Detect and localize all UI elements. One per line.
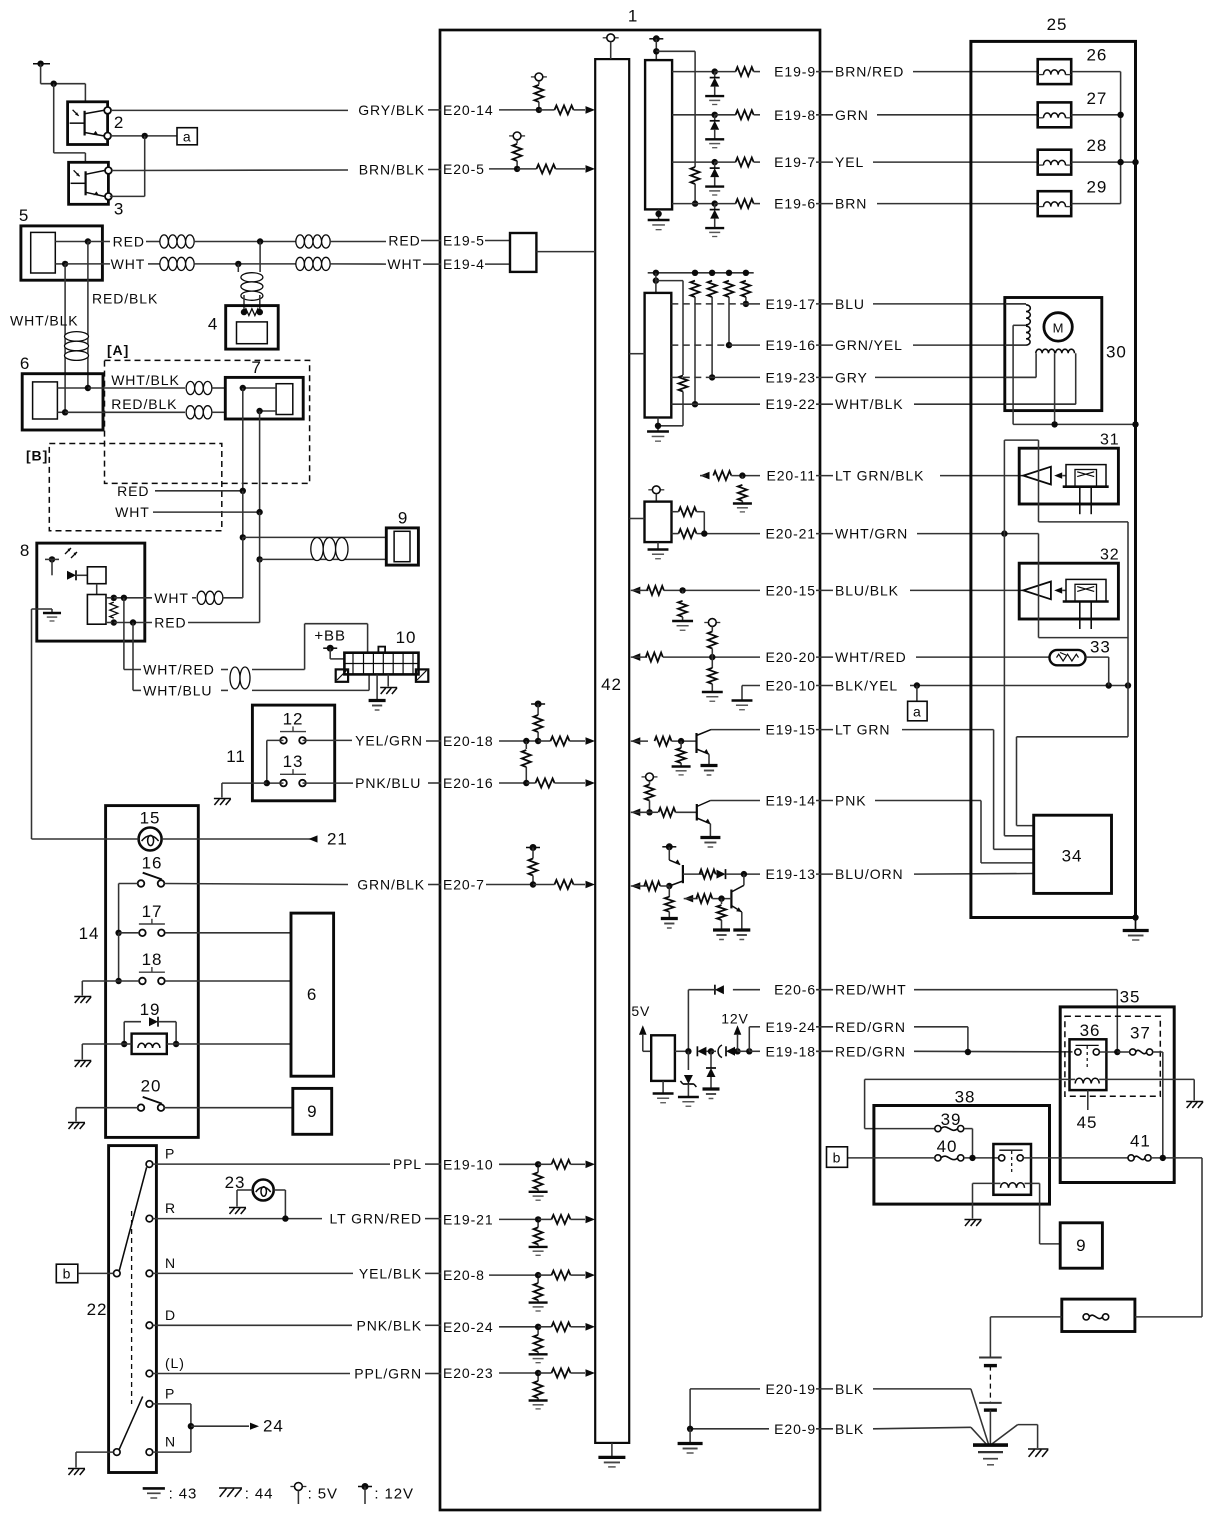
svg-text:E20-8: E20-8 xyxy=(443,1267,485,1283)
wire label WHT/RED at y=657.1 xyxy=(816,656,833,658)
link 17-18 xyxy=(118,933,120,981)
svg-text:7: 7 xyxy=(251,358,261,377)
wire label BLU/ORN at y=874.1 xyxy=(816,873,833,875)
svg-text:RED: RED xyxy=(117,483,149,499)
connector 9 bottom xyxy=(1060,1223,1102,1268)
svg-text:12: 12 xyxy=(283,710,304,729)
sensor 8 box xyxy=(37,543,145,641)
E19-13 driver transistor pair xyxy=(662,846,676,848)
svg-text:E20-21: E20-21 xyxy=(765,526,816,542)
wire YEL to coil 28 xyxy=(873,161,1038,163)
wires to connector 9 top xyxy=(242,491,244,538)
wire GRY/BLK to E20-14 xyxy=(111,109,348,111)
internal divider resistor xyxy=(111,595,117,601)
svg-text:N: N xyxy=(165,1255,176,1271)
svg-text:WHT: WHT xyxy=(115,504,150,520)
svg-text:RED/GRN: RED/GRN xyxy=(835,1019,906,1035)
sensor row E19-16 xyxy=(725,281,734,297)
transmission controller 34 xyxy=(1034,815,1112,893)
svg-text:22: 22 xyxy=(87,1300,108,1319)
valve return to controller xyxy=(1127,686,1129,737)
connector a right xyxy=(916,686,918,702)
svg-text:17: 17 xyxy=(142,902,163,921)
svg-text:: 44: : 44 xyxy=(245,1486,274,1503)
internal bus bar 42 xyxy=(595,59,629,1443)
svg-text:BLU: BLU xyxy=(835,296,865,312)
svg-text:WHT/GRN: WHT/GRN xyxy=(835,526,908,542)
power feed node xyxy=(33,63,50,65)
wire RED/GRN upper routing xyxy=(914,1026,968,1028)
svg-text:9: 9 xyxy=(307,1102,317,1121)
wire LT GRN/BLK to valve 31 xyxy=(940,475,1023,477)
svg-text:PNK/BLU: PNK/BLU xyxy=(355,775,421,791)
twisted pair to connector 6 xyxy=(65,332,89,342)
E19-15 driver transistor xyxy=(631,737,641,745)
wire label BLK/YEL at y=685.5 xyxy=(816,685,833,687)
regulator ground xyxy=(662,1081,664,1093)
switch block 14 xyxy=(106,806,199,1138)
wire from sensor 8 to bulb and pin 21 xyxy=(32,608,37,610)
wire PNK/BLK row xyxy=(153,1324,352,1326)
wire BLK/YEL row xyxy=(910,685,1128,687)
sensor interface block xyxy=(653,277,659,283)
driver output E19-6 with clamp diode xyxy=(672,203,715,205)
wire label GRY at y=377.4 xyxy=(816,376,833,378)
svg-text:37: 37 xyxy=(1130,1024,1151,1043)
dashed relay region 36 xyxy=(1065,1016,1160,1096)
wire PPL row xyxy=(153,1163,390,1165)
selector dashed guide xyxy=(131,1211,133,1404)
svg-text:BLK/YEL: BLK/YEL xyxy=(835,678,898,694)
wire label RED/GRN at y=1051.3 xyxy=(816,1050,833,1052)
svg-text:GRY: GRY xyxy=(835,369,868,385)
connector 7 xyxy=(225,377,303,419)
selector switch 22 xyxy=(109,1146,157,1473)
svg-text:6: 6 xyxy=(307,985,317,1004)
wire BLU/BLK to valve 32 xyxy=(910,589,1023,591)
zener to ground xyxy=(687,1051,689,1070)
crankshaft position sensor 3 xyxy=(69,162,109,204)
selector pin N xyxy=(146,1449,153,1456)
selector arm lower xyxy=(119,1397,142,1450)
voltage regulator block xyxy=(651,1035,675,1081)
svg-text:E20-24: E20-24 xyxy=(443,1319,494,1335)
fusible link box xyxy=(1062,1299,1135,1331)
svg-text:E19-9: E19-9 xyxy=(774,64,816,80)
svg-text:BLK: BLK xyxy=(835,1421,864,1437)
svg-text:: 12V: : 12V xyxy=(374,1486,414,1503)
svg-text:E19-23: E19-23 xyxy=(765,369,816,385)
driver output E19-8 with clamp diode xyxy=(672,114,715,116)
connector 10 grounds xyxy=(376,674,378,700)
sensor block ground xyxy=(657,418,659,432)
svg-text:8: 8 xyxy=(20,541,30,560)
sensor block internal resistor branch xyxy=(656,280,683,282)
svg-text:WHT/BLU: WHT/BLU xyxy=(143,682,212,698)
svg-text:GRY/BLK: GRY/BLK xyxy=(358,102,425,118)
main feed down xyxy=(1201,1158,1203,1317)
svg-text:E20-5: E20-5 xyxy=(443,161,485,177)
pull-up bus for sensor block xyxy=(648,272,754,274)
switch 16-17 link xyxy=(118,884,120,933)
svg-text:WHT: WHT xyxy=(111,256,146,272)
sensor 33 return xyxy=(1086,656,1109,658)
svg-text:13: 13 xyxy=(283,752,304,771)
junction connector 10 xyxy=(344,653,418,675)
legend 5V xyxy=(290,1486,294,1488)
svg-text:E20-9: E20-9 xyxy=(774,1421,816,1437)
svg-text:24: 24 xyxy=(263,1417,284,1436)
svg-text:3: 3 xyxy=(114,200,124,219)
chassis ground node xyxy=(990,1425,1017,1446)
relay 36 xyxy=(1070,1039,1107,1090)
svg-text:PNK/BLK: PNK/BLK xyxy=(357,1317,422,1333)
svg-text:45: 45 xyxy=(1077,1113,1098,1132)
wire label LT GRN at y=729.6 xyxy=(816,729,833,731)
svg-text:RED: RED xyxy=(113,234,145,250)
svg-text:40: 40 xyxy=(937,1137,958,1156)
sensor 8 ground xyxy=(37,608,52,610)
svg-text:RED/WHT: RED/WHT xyxy=(835,982,907,998)
5V supply at bar 42 top xyxy=(603,37,607,39)
svg-text:E19-17: E19-17 xyxy=(765,296,816,312)
E20-21 block ground xyxy=(657,542,659,549)
sensor 5 connector xyxy=(21,226,103,280)
bar-42 to sensor block link xyxy=(629,353,644,355)
wire label BRN/RED at y=71.6 xyxy=(816,71,833,73)
svg-text:28: 28 xyxy=(1087,136,1108,155)
wire GRY to motor 30 xyxy=(875,376,1036,378)
relay 36 coil left routing xyxy=(865,1078,1070,1080)
svg-text:P: P xyxy=(165,1386,175,1402)
wire label BLK at y=1388.9 xyxy=(816,1388,833,1390)
injector driver block xyxy=(645,60,672,209)
wire label BLU at y=303.9 xyxy=(816,303,833,305)
wire WHT/BLU xyxy=(132,623,134,691)
svg-text:E20-16: E20-16 xyxy=(443,775,494,791)
valve 31 feed xyxy=(1003,440,1005,533)
svg-text:WHT/RED: WHT/RED xyxy=(835,649,907,665)
shift solenoid valve 32 xyxy=(1019,563,1118,619)
svg-text:LT GRN: LT GRN xyxy=(835,722,890,738)
svg-text:9: 9 xyxy=(398,509,408,528)
shield drop to resistor 4 xyxy=(259,242,261,273)
svg-text:E19-10: E19-10 xyxy=(443,1156,494,1172)
svg-text:19: 19 xyxy=(140,1000,161,1019)
relay box 35 xyxy=(1060,1007,1174,1183)
wire WHT from 8 xyxy=(106,597,112,599)
wire PPL/GRN row xyxy=(153,1373,350,1375)
wire RED/WHT routing xyxy=(914,989,1117,991)
svg-text:RED: RED xyxy=(388,233,420,249)
wire label BLU/BLK at y=590.4 xyxy=(816,589,833,591)
selector ground xyxy=(76,1451,114,1453)
svg-text:E19-18: E19-18 xyxy=(765,1043,816,1059)
svg-text:32: 32 xyxy=(1100,547,1120,564)
svg-text:E19-16: E19-16 xyxy=(765,337,816,353)
block 9 right xyxy=(293,1088,332,1134)
svg-text:[B]: [B] xyxy=(26,448,48,464)
connector b left xyxy=(56,1264,78,1283)
svg-text:E20-7: E20-7 xyxy=(443,877,485,893)
5V supply to E20-21 interface xyxy=(648,489,652,491)
svg-text:6: 6 xyxy=(20,354,30,373)
camshaft position sensor 2 xyxy=(68,102,108,145)
solenoid coil 29 xyxy=(1038,191,1072,216)
selector pin P xyxy=(146,1401,153,1408)
svg-text:E20-23: E20-23 xyxy=(443,1365,494,1381)
wire RED in region B xyxy=(242,388,244,491)
svg-text:E19-7: E19-7 xyxy=(774,154,816,170)
selector pin N xyxy=(146,1270,153,1277)
svg-text:5: 5 xyxy=(19,206,29,225)
wire label GRN at y=114.8 xyxy=(816,114,833,116)
svg-text:: 43: : 43 xyxy=(169,1486,198,1503)
relay 38 inner xyxy=(993,1144,1031,1195)
selector pin R xyxy=(146,1215,153,1222)
relay box 38 xyxy=(874,1106,1050,1205)
svg-text:BLU/ORN: BLU/ORN xyxy=(835,866,904,882)
P/N output to 24 xyxy=(153,1403,191,1405)
wire label GRN/YEL at y=345.1 xyxy=(816,344,833,346)
wire label WHT/GRN at y=533.6 xyxy=(816,533,833,535)
svg-text:42: 42 xyxy=(601,675,622,694)
connector 6 xyxy=(22,374,103,430)
wire WHT/GRN junction xyxy=(917,533,1039,535)
wire WHT/RED to sensor 33 xyxy=(916,656,1050,658)
E19-18 supply row xyxy=(675,1050,689,1052)
detector blocks inside 8 xyxy=(87,567,106,584)
svg-text:21: 21 xyxy=(327,830,348,849)
ground for 20 xyxy=(75,1108,77,1122)
relay 38 output row xyxy=(1023,1157,1128,1159)
wire BLK E20-19 to ground xyxy=(873,1388,971,1390)
solenoid coil 27 xyxy=(1038,102,1072,127)
wire YEL/BLK row xyxy=(153,1272,353,1274)
svg-text:E19-14: E19-14 xyxy=(765,793,816,809)
svg-text:16: 16 xyxy=(142,854,163,873)
svg-text:26: 26 xyxy=(1087,46,1108,65)
selector pin (L) xyxy=(146,1370,153,1377)
dashed region [A] xyxy=(105,360,310,483)
motor winding A xyxy=(1026,305,1030,325)
resistor module 4 xyxy=(226,306,279,350)
+BB supply xyxy=(304,624,306,670)
temp sensor 33 xyxy=(1050,650,1086,665)
wire WHT/BLK vertical xyxy=(64,264,66,412)
legend 12V xyxy=(358,1486,372,1488)
driver block ground xyxy=(658,209,660,219)
svg-text:YEL/BLK: YEL/BLK xyxy=(359,1265,422,1281)
svg-text:BLU/BLK: BLU/BLK xyxy=(835,582,899,598)
svg-text:PPL: PPL xyxy=(393,1156,422,1172)
wire LT GRN/RED row xyxy=(153,1218,322,1220)
svg-text:PNK: PNK xyxy=(835,793,867,809)
svg-text:: 5V: : 5V xyxy=(308,1486,338,1503)
idle control motor 30 box xyxy=(1005,298,1102,411)
connector a xyxy=(177,128,197,145)
svg-text:E19-4: E19-4 xyxy=(443,256,485,272)
interface block for E20-21 xyxy=(645,502,672,542)
svg-text:18: 18 xyxy=(142,950,163,969)
wire LT GRN to controller 34 xyxy=(902,729,994,731)
svg-text:WHT/BLK: WHT/BLK xyxy=(10,313,79,329)
svg-text:E19-15: E19-15 xyxy=(765,722,816,738)
connector b right xyxy=(827,1147,848,1168)
sensor row E19-22 xyxy=(691,281,700,297)
svg-text:15: 15 xyxy=(140,808,161,827)
divider resistor between E20-18 and E20-16 rows xyxy=(523,738,529,744)
selector pin D xyxy=(146,1322,153,1329)
selector left pin upper xyxy=(114,1270,121,1277)
block 11 common to ground xyxy=(266,740,268,783)
svg-text:a: a xyxy=(183,129,192,145)
svg-text:34: 34 xyxy=(1062,847,1083,866)
svg-text:E19-24: E19-24 xyxy=(765,1019,816,1035)
motor common bus xyxy=(1013,423,1135,425)
svg-text:E19-13: E19-13 xyxy=(765,866,816,882)
wire RED from sensor 5 xyxy=(88,241,110,243)
wire GRN/YEL to motor 30 xyxy=(913,344,1026,346)
wire WHT from sensor 5 xyxy=(65,263,110,265)
svg-text:E19-22: E19-22 xyxy=(765,396,816,412)
svg-text:RED/BLK: RED/BLK xyxy=(92,290,158,306)
svg-text:E20-11: E20-11 xyxy=(766,468,816,484)
switch block 11 xyxy=(252,705,334,801)
svg-text:33: 33 xyxy=(1090,638,1111,657)
relay 38 coil right to 9 xyxy=(1031,1182,1040,1184)
svg-text:BLK: BLK xyxy=(835,1381,864,1397)
svg-text:b: b xyxy=(833,1149,842,1165)
wire label BRN at y=203.6 xyxy=(816,203,833,205)
valve 31-32 return path xyxy=(1039,521,1129,523)
svg-text:BRN/BLK: BRN/BLK xyxy=(359,162,425,178)
LED emitter inside 8 xyxy=(49,556,55,562)
svg-text:E19-21: E19-21 xyxy=(443,1211,494,1227)
pin 45 marker xyxy=(1087,1090,1089,1110)
svg-text:12V: 12V xyxy=(721,1010,749,1026)
svg-text:23: 23 xyxy=(225,1173,246,1192)
svg-text:a: a xyxy=(913,703,922,719)
svg-text:BRN/RED: BRN/RED xyxy=(835,64,904,80)
ground for 18 xyxy=(81,981,83,996)
block 6 right xyxy=(291,913,334,1076)
svg-text:29: 29 xyxy=(1087,178,1108,197)
svg-text:D: D xyxy=(165,1307,176,1323)
wire BRN to coil 29 xyxy=(877,203,1038,205)
ECU box 1 xyxy=(440,30,820,1510)
wire label LT GRN/BLK at y=475.6 xyxy=(816,475,833,477)
svg-text:20: 20 xyxy=(141,1077,162,1096)
12V supply to injector driver xyxy=(649,38,663,40)
driver output E19-9 with clamp diode xyxy=(672,71,715,73)
svg-text:31: 31 xyxy=(1100,432,1120,449)
pin E20-11 output w/ pull-down xyxy=(700,472,710,480)
wire WHT/BLK to connector 7 xyxy=(88,387,185,389)
svg-text:E20-14: E20-14 xyxy=(443,102,494,118)
svg-text:(L): (L) xyxy=(165,1355,185,1371)
svg-text:PPL/GRN: PPL/GRN xyxy=(354,1366,422,1382)
svg-text:WHT/RED: WHT/RED xyxy=(143,662,215,678)
wire BLU to motor 30 xyxy=(873,303,1026,305)
svg-text:YEL: YEL xyxy=(835,154,864,170)
svg-text:E19-5: E19-5 xyxy=(443,233,485,249)
node a link xyxy=(110,135,177,137)
actuator assembly box 25 xyxy=(971,41,1136,917)
svg-text:5V: 5V xyxy=(631,1003,650,1019)
svg-text:E20-15: E20-15 xyxy=(765,582,816,598)
battery xyxy=(989,1317,991,1358)
svg-text:E20-20: E20-20 xyxy=(765,649,816,665)
svg-text:WHT/BLK: WHT/BLK xyxy=(835,396,904,412)
svg-text:E20-6: E20-6 xyxy=(774,982,816,998)
svg-text:E19-8: E19-8 xyxy=(774,107,816,123)
svg-text:30: 30 xyxy=(1106,343,1127,362)
valve 32 feed xyxy=(1003,534,1005,836)
wire label WHT/BLK at y=404.2 xyxy=(816,403,833,405)
E20-21 output resistors xyxy=(679,507,697,516)
clamp diode to ground xyxy=(710,1051,712,1068)
svg-text:[A]: [A] xyxy=(107,342,129,358)
svg-text:9: 9 xyxy=(1076,1236,1086,1255)
coil return bus xyxy=(1071,71,1120,73)
svg-text:WHT/BLK: WHT/BLK xyxy=(111,372,180,388)
relay 36 coil right to ground xyxy=(1106,1078,1194,1080)
svg-text:2: 2 xyxy=(114,113,124,132)
input interface block for E19-5/E19-4 xyxy=(510,233,536,272)
svg-text:RED/BLK: RED/BLK xyxy=(111,396,177,412)
svg-text:E20-10: E20-10 xyxy=(765,678,816,694)
connector 9 top xyxy=(386,528,418,565)
svg-text:GRN: GRN xyxy=(835,107,869,123)
wire RED/GRN main row xyxy=(914,1050,1073,1053)
relay 38 coil left to ground xyxy=(973,1182,994,1184)
wire GRN to coil 27 xyxy=(877,114,1038,116)
svg-text:27: 27 xyxy=(1087,89,1108,108)
E19-14 driver transistor xyxy=(642,776,646,778)
svg-text:GRN/YEL: GRN/YEL xyxy=(835,337,903,353)
dashed region [B] xyxy=(49,444,222,531)
wire label RED/WHT at y=989.7 xyxy=(816,989,833,991)
svg-text:R: R xyxy=(165,1200,176,1216)
ground for 19 xyxy=(82,1043,124,1045)
wire label YEL at y=162.1 xyxy=(816,161,833,163)
svg-text:LT GRN/RED: LT GRN/RED xyxy=(330,1211,423,1227)
svg-text:E20-19: E20-19 xyxy=(765,1381,816,1397)
svg-text:E20-18: E20-18 xyxy=(443,733,494,749)
wire label RED/GRN at y=1026.8 xyxy=(816,1026,833,1028)
svg-text:38: 38 xyxy=(955,1088,976,1107)
svg-text:4: 4 xyxy=(208,315,218,334)
svg-text:b: b xyxy=(63,1266,72,1282)
wire label PNK at y=800.5 xyxy=(816,800,833,802)
pin E20-20 w/ 5V divider xyxy=(631,653,641,661)
driver output E19-7 with clamp diode xyxy=(672,161,715,163)
svg-text:35: 35 xyxy=(1120,988,1141,1007)
box 25 ground xyxy=(1132,914,1138,920)
legend ground 43 xyxy=(143,1487,165,1490)
wire WHT in region B xyxy=(259,411,261,512)
wire PNK to controller 34 xyxy=(875,800,981,802)
wire RED/BLK vertical xyxy=(87,242,89,389)
legend ground 44 xyxy=(219,1487,242,1489)
motor symbol M xyxy=(1044,313,1072,341)
svg-text:P: P xyxy=(165,1146,175,1162)
shift solenoid valve 31 xyxy=(1019,448,1118,504)
pin E20-15 output w/ pull-down xyxy=(631,587,641,595)
svg-text:LT GRN/BLK: LT GRN/BLK xyxy=(835,468,924,484)
solenoid coil 26 xyxy=(1038,59,1072,84)
